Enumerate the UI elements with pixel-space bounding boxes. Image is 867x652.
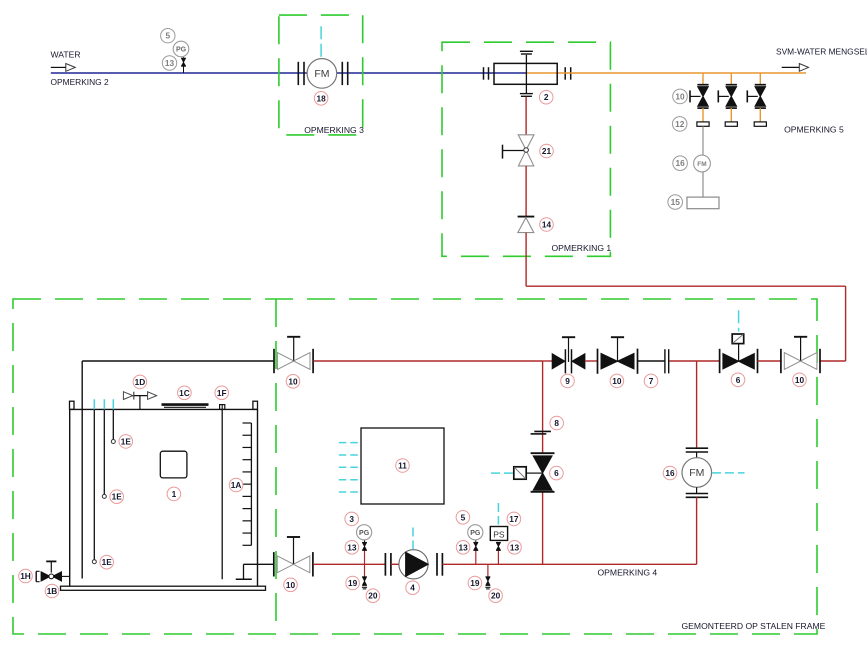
svg-text:12: 12 <box>675 119 685 129</box>
label 16 gray <box>673 156 688 171</box>
svg-text:1E: 1E <box>121 436 132 446</box>
wire red pump inlet <box>391 563 400 565</box>
svg-text:8: 8 <box>554 418 559 428</box>
valve tiny 13a <box>362 542 367 550</box>
dip tube end circle <box>92 560 96 564</box>
valve 9 filled <box>552 337 585 373</box>
signal cyan to PS <box>497 503 499 525</box>
vent valve 1D <box>123 392 156 410</box>
svg-text:1D: 1D <box>135 377 146 387</box>
drain cap 2 <box>485 587 490 589</box>
svg-text:GEMONTEERD OP STALEN FRAME: GEMONTEERD OP STALEN FRAME <box>682 621 826 631</box>
svg-text:6: 6 <box>736 375 741 385</box>
dip tube at x=104.3 <box>103 409 105 494</box>
label 10 bottom <box>284 578 298 592</box>
wire drain 2 <box>487 564 489 577</box>
wire red top header <box>313 360 552 362</box>
valve tiny isolation (13) <box>181 58 186 66</box>
label 13b <box>456 541 470 555</box>
dip tube at x=113.3 cyan tip <box>112 399 114 409</box>
valve 10 hose valve 3 <box>747 85 766 108</box>
gauge PG circle <box>173 41 189 57</box>
flange FM16 bottom <box>686 487 708 497</box>
label 7 <box>644 374 658 388</box>
wire red v9-v10 <box>585 360 597 362</box>
flow meter FM18 <box>307 59 337 89</box>
svg-text:5: 5 <box>165 31 170 41</box>
flow meter FM gray <box>694 155 711 172</box>
wire black v10b-f7 <box>638 360 665 362</box>
svg-text:SVM-WATER MENGSEL: SVM-WATER MENGSEL <box>776 47 867 57</box>
text GEMONTEERD OP STALEN FRAME <box>682 621 826 631</box>
text OPMERKING 2 <box>51 77 110 87</box>
check valve 14 <box>518 217 535 233</box>
flange pair left of FM18 <box>298 62 304 85</box>
control box 11 <box>361 428 444 504</box>
label 12 gray <box>672 117 687 132</box>
svg-text:PG: PG <box>176 47 187 54</box>
label 1E <box>119 435 133 449</box>
valve 6 top actuated <box>720 334 758 373</box>
svg-text:1E: 1E <box>102 557 113 567</box>
drain valve 1B <box>41 561 61 581</box>
svg-text:10: 10 <box>795 375 805 385</box>
svg-text:14: 14 <box>542 219 552 229</box>
dip tube at x=94.3 cyan tip <box>93 399 95 409</box>
label 10 <box>286 375 300 389</box>
gauge PG 5 <box>468 525 483 540</box>
label 1D <box>133 375 147 389</box>
wire red down from mixer <box>525 97 527 135</box>
svg-text:1E: 1E <box>112 492 123 502</box>
svg-text:13: 13 <box>165 58 175 68</box>
label 10b <box>610 374 624 388</box>
label 1C <box>178 386 192 400</box>
valve 10c open outlet <box>781 337 820 373</box>
wire tank drain <box>62 575 70 577</box>
stem PG5 <box>475 540 477 543</box>
svg-text:7: 7 <box>649 376 654 386</box>
svg-text:OPMERKING 2: OPMERKING 2 <box>51 77 110 87</box>
signal cyan to FM18 <box>320 26 322 57</box>
label 16 <box>663 466 677 480</box>
tube from 1F <box>221 409 223 579</box>
label 20b <box>489 589 503 603</box>
flange pair right of FM18 <box>342 62 347 85</box>
svg-text:1C: 1C <box>179 388 190 398</box>
flange pair right of mixer <box>565 67 571 80</box>
svg-text:3: 3 <box>349 514 354 524</box>
mixer bottom vent <box>520 84 533 96</box>
label 1B <box>45 584 59 598</box>
label 10 gray <box>673 89 688 104</box>
mixer top vent <box>520 51 533 63</box>
svg-text:19: 19 <box>470 578 480 588</box>
valve 10 hose valve 1 <box>690 85 709 108</box>
svg-text:FM: FM <box>314 68 329 80</box>
label 13 <box>162 56 176 70</box>
wire red bypass vertical <box>542 361 544 564</box>
valve 10b filled flanged <box>598 337 638 374</box>
pump 4 <box>399 550 428 579</box>
wire gray to box 15 <box>702 172 704 197</box>
svg-text:10: 10 <box>288 376 298 386</box>
wire suction pipe from tank <box>82 361 274 579</box>
label 1H <box>19 569 33 583</box>
signal cyan to valve 6 top <box>738 310 740 331</box>
svg-text:21: 21 <box>542 146 552 156</box>
drain cap 1 <box>362 587 367 589</box>
wire red suction <box>313 563 385 565</box>
flange FM16 top <box>686 448 708 458</box>
label 1F <box>215 386 229 400</box>
svg-text:13: 13 <box>510 542 520 552</box>
box 15 <box>687 197 719 209</box>
svg-text:16: 16 <box>665 468 675 478</box>
svg-text:13: 13 <box>458 542 468 552</box>
svg-text:10: 10 <box>675 91 685 101</box>
wire orange drop 1 <box>702 73 704 85</box>
svg-text:16: 16 <box>675 158 685 168</box>
label 5b <box>456 511 470 525</box>
wire orange below valve 1 <box>702 108 704 122</box>
svg-text:11: 11 <box>398 460 407 470</box>
level gauge 1A comb <box>243 423 252 545</box>
valve 10 frame inlet top <box>274 337 313 373</box>
svg-text:19: 19 <box>348 578 358 588</box>
stem PG3 <box>364 540 366 543</box>
flange pair 7 <box>665 349 669 373</box>
blind cap 1H fitting <box>36 571 39 581</box>
green dashed divider <box>275 299 277 634</box>
orifice 8 <box>531 431 551 434</box>
valve 10 frame suction <box>274 537 313 577</box>
svg-text:1: 1 <box>172 489 177 499</box>
wire orange below valve 3 <box>759 108 761 122</box>
dip tube at x=104.3 cyan tip <box>103 399 105 409</box>
dip tube at x=94.3 <box>93 409 95 559</box>
label 1E <box>110 490 124 504</box>
heater block 1 <box>160 451 187 478</box>
flow meter FM16 <box>682 458 712 488</box>
label 20a <box>366 589 380 603</box>
pressure switch PS <box>490 527 507 541</box>
label 10c <box>793 373 807 387</box>
wire red f7 to valve 6 top <box>670 360 720 362</box>
fitting 1F <box>220 405 225 410</box>
svg-text:17: 17 <box>509 514 519 524</box>
flange pair pump outlet <box>437 553 442 576</box>
tank shell <box>70 409 258 586</box>
label 6 mid <box>550 466 564 480</box>
text OPMERKING 3 <box>304 125 364 135</box>
green dashed box OPMERKING 1 <box>442 42 610 256</box>
text WATER inlet label <box>51 50 81 60</box>
tank top tab left <box>70 401 75 409</box>
static mixer 2 body <box>494 63 557 84</box>
wire red between valve 21 and check 14 <box>525 166 527 216</box>
label 19b <box>468 576 482 590</box>
wire orange mixture line <box>526 72 806 74</box>
valve tiny 13c <box>496 542 501 550</box>
wire red FM branch bottom <box>696 497 698 564</box>
green dashed box OPMERKING 3 <box>279 15 363 135</box>
svg-text:PS: PS <box>493 530 505 540</box>
label 9 <box>561 374 575 388</box>
label 2 <box>539 90 553 104</box>
signal cyan from FM16 <box>712 472 745 474</box>
dip tube end circle <box>102 494 106 498</box>
wire tap PG3 <box>364 550 366 564</box>
flange pair left of mixer <box>484 67 489 80</box>
wire tap PG5 <box>475 550 477 564</box>
text OPMERKING 5 <box>784 125 844 135</box>
dip tube end circle <box>111 440 115 444</box>
svg-text:2: 2 <box>544 92 549 102</box>
flange pair pump inlet <box>385 553 391 576</box>
wire drain 1 <box>364 564 366 577</box>
svg-text:OPMERKING 4: OPMERKING 4 <box>598 567 658 577</box>
text SVM-WATER MENGSEL <box>776 47 867 57</box>
manhole lid 1C <box>162 405 209 408</box>
wire red to SVM header <box>526 233 846 361</box>
svg-text:1F: 1F <box>217 388 227 398</box>
label 13c <box>508 541 522 555</box>
text OPMERKING 4 <box>598 567 658 577</box>
dip tube at x=113.3 <box>112 409 114 439</box>
wire orange below valve 2 <box>730 108 732 122</box>
label 19a <box>346 576 360 590</box>
wire tap PS <box>497 550 499 564</box>
label 15 gray <box>668 195 683 210</box>
label 21 <box>540 144 554 158</box>
svg-text:18: 18 <box>316 93 326 103</box>
signal cyan rows into box 11 <box>339 443 361 492</box>
label 1E <box>100 555 114 569</box>
tank top tab right <box>253 401 258 409</box>
label 1 <box>167 487 181 501</box>
flow arrow SVM outlet <box>782 64 809 72</box>
svg-text:20: 20 <box>491 591 501 601</box>
flow arrow at WATER <box>51 64 75 72</box>
tank base plate <box>61 586 266 590</box>
label 6 top <box>731 373 745 387</box>
svg-text:15: 15 <box>671 197 681 207</box>
svg-text:6: 6 <box>554 468 559 478</box>
svg-text:FM: FM <box>697 161 706 168</box>
node instrument tap stem <box>183 57 185 73</box>
svg-text:4: 4 <box>410 583 415 593</box>
signal cyan to pump <box>412 528 414 550</box>
svg-text:10: 10 <box>286 580 296 590</box>
svg-text:1B: 1B <box>47 586 58 596</box>
hose coupling 12 #3 <box>754 122 766 126</box>
wire water line blue <box>51 72 527 74</box>
signal cyan to valve 6 mid <box>491 472 513 474</box>
label 8 <box>550 416 564 430</box>
svg-text:10: 10 <box>612 376 622 386</box>
label 13a <box>345 541 359 555</box>
green dashed frame box <box>13 299 817 634</box>
wire orange drop 2 <box>730 73 732 85</box>
hose coupling 12 #2 <box>725 122 737 126</box>
hose coupling 12 #1 <box>697 122 709 126</box>
svg-text:20: 20 <box>368 591 378 601</box>
svg-text:9: 9 <box>565 376 570 386</box>
wire red FM branch top <box>696 361 698 447</box>
label 5 <box>161 29 175 43</box>
valve tiny 19b <box>486 577 491 586</box>
svg-text:WATER: WATER <box>51 50 81 60</box>
svg-text:OPMERKING 3: OPMERKING 3 <box>304 125 364 135</box>
wire gray to FM16b <box>702 126 704 155</box>
valve 6 mid actuated <box>514 453 555 492</box>
text OPMERKING 1 <box>552 243 612 253</box>
valve tiny 13b <box>473 542 478 550</box>
svg-text:OPMERKING 1: OPMERKING 1 <box>552 243 612 253</box>
label 14 <box>540 218 554 232</box>
svg-text:PG: PG <box>359 530 370 537</box>
label 4 <box>406 581 420 595</box>
label 3 <box>345 512 359 526</box>
gauge PG 3 <box>357 525 372 540</box>
svg-text:1A: 1A <box>231 480 242 490</box>
label 1A <box>229 478 243 492</box>
svg-text:OPMERKING 5: OPMERKING 5 <box>784 125 844 135</box>
valve tiny 19a <box>362 577 367 586</box>
svg-text:PG: PG <box>470 530 481 537</box>
wire red v6-v10c <box>758 360 782 362</box>
svg-text:FM: FM <box>689 467 704 479</box>
valve 10 hose valve 2 <box>718 85 737 108</box>
label 17 <box>507 512 521 526</box>
label 18 <box>314 92 328 106</box>
valve 21 globe <box>503 135 535 166</box>
svg-text:13: 13 <box>347 542 357 552</box>
svg-text:1H: 1H <box>20 571 31 581</box>
label 11 <box>396 459 410 473</box>
wire red discharge <box>442 563 696 565</box>
tank outlet pipe <box>236 564 274 579</box>
svg-text:5: 5 <box>461 512 466 522</box>
wire orange drop 3 <box>759 73 761 85</box>
